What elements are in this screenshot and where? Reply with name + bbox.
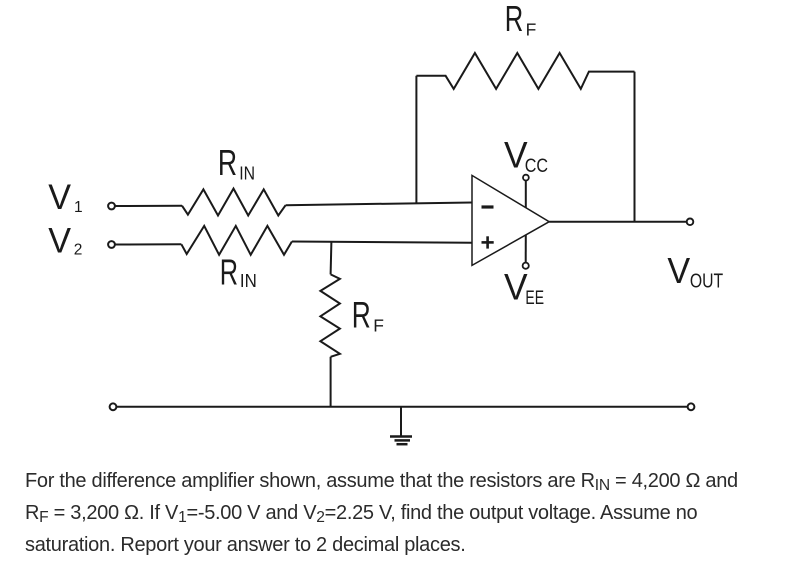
svg-text:IN: IN <box>240 271 257 291</box>
wire V1 terminal to RIN1 <box>115 205 182 207</box>
node VCC terminal <box>523 175 529 181</box>
svg-text:V: V <box>48 178 71 217</box>
node V2 input terminal <box>108 241 115 248</box>
node bottom-right terminal <box>688 403 695 410</box>
svg-text:EE: EE <box>525 288 544 309</box>
svg-text:R: R <box>352 294 371 335</box>
node V1 input terminal <box>108 203 115 210</box>
svg-text:V: V <box>667 250 690 291</box>
label VOUT <box>667 250 723 292</box>
op-amp plus sign <box>482 236 494 248</box>
wire op-amp output <box>549 221 687 223</box>
problem statement text <box>25 465 785 562</box>
resistor RIN1 (top input) <box>182 189 286 216</box>
svg-text:R: R <box>505 0 524 39</box>
wire VCC stub <box>525 180 527 207</box>
label RIN1 <box>218 142 255 183</box>
label RIN2 <box>220 252 257 293</box>
label VCC <box>504 135 548 177</box>
svg-text:F: F <box>373 316 384 336</box>
wire RIN2 to op-amp non-inverting input <box>292 242 472 243</box>
svg-text:IN: IN <box>239 163 255 183</box>
resistor RIN2 (bottom input) <box>181 226 292 255</box>
wire RF bottom to rail <box>330 357 332 407</box>
ground <box>390 407 412 444</box>
node bottom-left terminal <box>110 403 117 410</box>
label V1 <box>48 178 82 217</box>
label RF feedback <box>505 0 537 39</box>
op-amp U1 triangle <box>472 175 549 265</box>
svg-text:R: R <box>218 142 237 183</box>
resistor RF feedback (top) <box>416 53 634 89</box>
svg-text:OUT: OUT <box>690 270 723 292</box>
label RF vertical <box>352 294 384 335</box>
svg-text:V: V <box>48 222 71 261</box>
wire V2 terminal to RIN2 <box>115 243 181 245</box>
label VEE <box>504 267 544 309</box>
resistor RF to ground (vertical) <box>320 274 340 356</box>
node VOUT terminal <box>687 219 694 226</box>
wire bottom rail <box>117 406 688 408</box>
svg-text:CC: CC <box>525 156 548 177</box>
wire feedback left vertical <box>415 76 417 204</box>
wire RIN1 to op-amp inverting input <box>286 203 472 206</box>
svg-text:R: R <box>220 252 238 293</box>
wire plus node to RF ground resistor <box>330 242 333 275</box>
svg-text:2: 2 <box>74 242 83 259</box>
wire VEE stub <box>525 235 527 263</box>
svg-text:V: V <box>504 267 528 308</box>
svg-text:F: F <box>526 19 537 39</box>
label V2 <box>48 222 82 261</box>
wire feedback right vertical <box>634 72 636 222</box>
op-amp minus sign <box>482 205 494 208</box>
svg-text:1: 1 <box>74 199 83 216</box>
node VEE terminal <box>523 263 529 269</box>
